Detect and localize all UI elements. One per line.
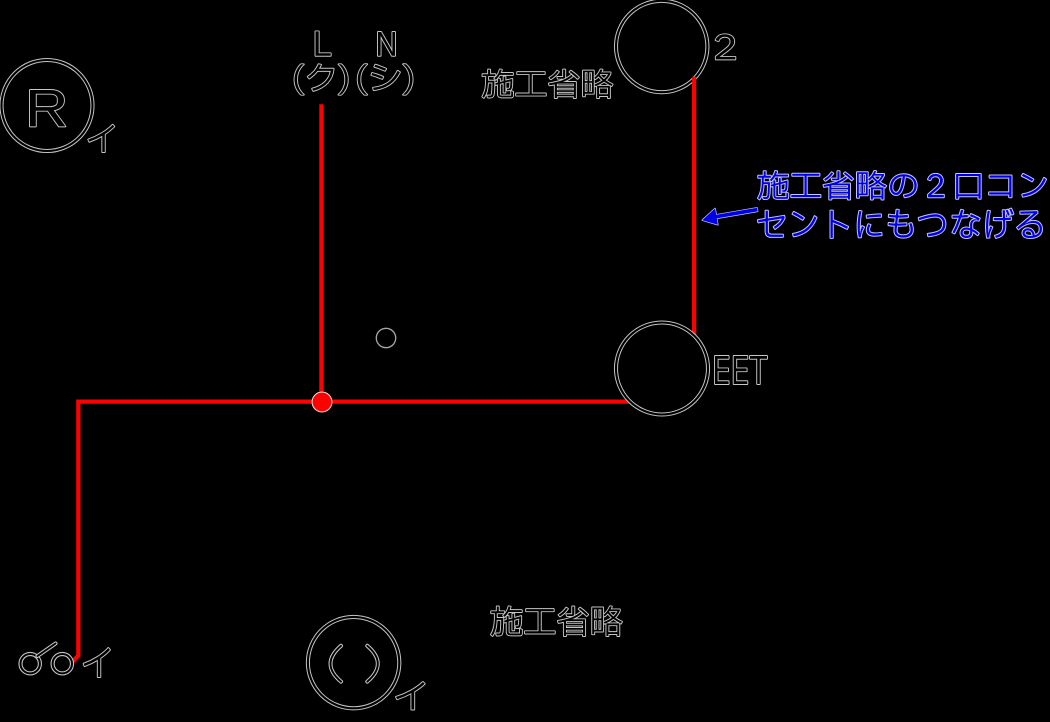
text 施工省略 (bottom, construction omitted) <box>491 606 622 636</box>
label イ for circled-R device <box>88 125 114 152</box>
switch terminal circle right <box>53 654 72 673</box>
terminal label N (neutral) <box>378 32 395 56</box>
wire red: corner down-left to switch イ terminal <box>71 400 79 664</box>
switch lever <box>38 644 56 657</box>
label 2 (2-port) <box>716 34 736 59</box>
lamp: inner left paren <box>331 646 342 682</box>
junction node: red dot at L wire / horizontal wire <box>312 392 332 412</box>
blue arrow pointing to red wire <box>702 208 758 225</box>
label イ for switch <box>84 648 110 677</box>
text 施工省略 (top, construction omitted) <box>482 69 612 98</box>
node label (ク) under L <box>295 64 348 95</box>
lamp: ceiling rose circle <box>308 617 399 708</box>
device: circled R fixture (room air conditioner symbol) <box>2 60 93 151</box>
node: black junction dot (marker) <box>376 328 395 347</box>
wire red: 2-port receptacle down to EET receptacle <box>692 77 696 336</box>
lamp: inner right paren <box>367 646 378 682</box>
label R inside circle <box>30 90 65 126</box>
label イ for lamp <box>396 682 425 710</box>
receptacle circle 2-port outlet <box>616 1 707 92</box>
terminal label L (live) <box>316 31 331 55</box>
blue note text line 1: 施工省略の２口コン <box>758 171 1046 200</box>
switch terminal circle left <box>21 654 40 673</box>
receptacle circle EET (earthed outlet) <box>616 323 708 415</box>
wire red: horizontal from switch-branch corner to EET receptacle <box>78 400 629 404</box>
node label (シ) under N <box>358 64 413 95</box>
label EET <box>715 356 767 384</box>
blue note text line 2: セントにもつなげる <box>758 209 1042 238</box>
wire red: L(ク) down to junction <box>319 104 323 402</box>
